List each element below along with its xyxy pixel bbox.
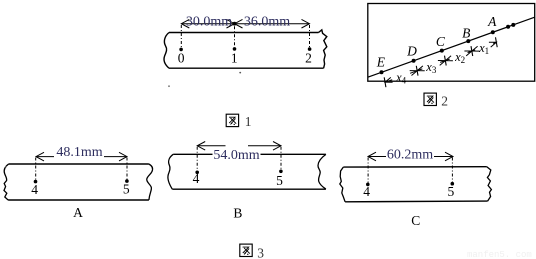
fig1 tape top edge — [169, 32, 319, 34]
tapeB top edge — [173, 153, 326, 155]
fig1 dim arrowhead at point2 — [302, 19, 310, 28]
fig2 dot D — [412, 59, 416, 63]
fig1 dashed extension line — [309, 25, 311, 47]
tapeA top edge — [9, 163, 149, 165]
svg-text:A: A — [73, 205, 83, 220]
tapeC dot 5 — [451, 182, 455, 186]
tapeC dashed line 5 — [451, 158, 453, 183]
fig2 dim arrow left x2 — [445, 59, 449, 61]
tapeC top edge — [343, 166, 487, 168]
speck left of fig1 tape lower — [168, 85, 170, 87]
tapeB bottom edge — [172, 188, 326, 190]
tapeC dot 4 — [366, 183, 370, 187]
svg-text:4: 4 — [193, 171, 200, 186]
svg-text:2: 2 — [305, 51, 312, 66]
fig2 dim arrow right x3 — [440, 61, 445, 63]
speck near tapeA top left — [5, 166, 7, 168]
tapeC right torn edge — [487, 167, 492, 201]
svg-text:A: A — [487, 14, 497, 29]
tapeA dashed line 5 — [126, 158, 128, 180]
fig2 dim arrow left x4 — [385, 80, 392, 83]
tapeA dim line left stub — [36, 156, 54, 158]
tapeC dim line left stub — [368, 156, 386, 158]
tapeA dashed line 4 — [35, 158, 37, 181]
fig1 tape bottom edge — [169, 67, 324, 69]
tapeB left torn edge — [168, 154, 173, 189]
fig2 dot C — [440, 49, 444, 53]
fig1 dot 2 — [308, 47, 312, 51]
tapeA dim arrowheads — [36, 152, 44, 161]
tapeB right torn edge — [318, 154, 326, 189]
tapeC dim line right stub — [434, 156, 453, 158]
tapeA left torn edge — [4, 164, 9, 200]
fig2 dimension tick — [445, 56, 447, 66]
fig1 dot 0 — [179, 48, 183, 52]
svg-text:48.1mm: 48.1mm — [56, 145, 102, 160]
svg-text:1: 1 — [231, 51, 238, 66]
tapeA dot 4 — [34, 180, 38, 184]
fig2 dim arrow right x2 — [468, 51, 472, 53]
svg-text:x4: x4 — [395, 71, 407, 86]
tapeB dot 5 — [279, 170, 283, 174]
svg-text:x1: x1 — [478, 41, 489, 56]
svg-text:30.0mm: 30.0mm — [186, 14, 232, 29]
fig2 dot E — [380, 70, 384, 74]
tapeA dim line right stub — [104, 156, 127, 158]
tapeB dim line left — [197, 145, 225, 147]
fig3 caption figure-3 — [240, 244, 252, 256]
fig2 caption figure-2 — [424, 93, 436, 105]
fig2 diagonal tape line — [368, 17, 535, 77]
tapeB dim line right — [248, 145, 281, 147]
fig2 dot extra — [511, 23, 515, 27]
fig2 dimension tick — [471, 46, 473, 56]
svg-text:E: E — [376, 54, 386, 69]
tapeC dim arrowheads — [368, 152, 376, 161]
tapeB label 54.0mm background — [213, 149, 261, 160]
svg-text:2: 2 — [441, 94, 448, 109]
fig2 dimension tick — [416, 66, 418, 76]
speck below fig1 tape — [239, 72, 241, 74]
tapeB dashed line 5 — [280, 147, 282, 170]
tapeA right torn edge — [147, 164, 153, 200]
svg-text:4: 4 — [363, 184, 370, 199]
fig1 caption figure-1 — [226, 114, 238, 126]
svg-text:5: 5 — [123, 181, 130, 196]
svg-text:manfen5. com: manfen5. com — [467, 250, 532, 259]
fig2 dot A — [491, 30, 495, 34]
svg-text:B: B — [462, 25, 470, 40]
svg-text:60.2mm: 60.2mm — [387, 147, 433, 162]
fig1 dim arrowhead at point0 — [181, 19, 189, 28]
fig1 tape right torn edge — [319, 30, 327, 68]
fig1 dimension line 0 to 2 — [181, 23, 309, 25]
tapeB dot 4 — [195, 171, 199, 175]
svg-text:C: C — [411, 213, 420, 228]
fig2 dim arrow left x1 — [472, 50, 475, 51]
tapeB dashed line 4 — [196, 147, 198, 171]
fig1 dot 1 — [233, 47, 237, 51]
tapeC left torn edge — [340, 167, 345, 202]
svg-text:B: B — [233, 206, 242, 221]
svg-text:D: D — [406, 44, 417, 59]
fig1 dashed extension line — [180, 25, 182, 47]
tapeC bottom edge — [345, 200, 488, 203]
svg-text:x2: x2 — [454, 50, 465, 65]
fig2 dim arrow right x4 — [410, 71, 417, 74]
svg-text:5: 5 — [276, 173, 283, 188]
svg-text:5: 5 — [448, 184, 455, 199]
svg-text:0: 0 — [178, 51, 185, 66]
svg-text:x3: x3 — [425, 60, 437, 75]
fig1 dashed extension line — [234, 26, 236, 47]
svg-text:C: C — [436, 34, 446, 49]
fig2 dim arrow right x1 — [493, 42, 496, 43]
fig2 dimension tick — [384, 77, 386, 87]
svg-text:3: 3 — [257, 246, 264, 259]
tapeC dashed line 4 — [367, 158, 369, 183]
fig1 tape left torn edge — [164, 33, 169, 69]
fig2 dot B — [466, 39, 470, 43]
tapeB dim arrowheads — [197, 142, 205, 151]
tapeA dot 5 — [125, 179, 129, 183]
fig2 dimension tick — [496, 37, 498, 47]
fig2 dot extra — [506, 25, 510, 29]
svg-text:54.0mm: 54.0mm — [213, 148, 259, 163]
svg-text:36.0mm: 36.0mm — [244, 14, 290, 29]
svg-text:4: 4 — [31, 182, 38, 197]
tapeA bottom edge — [8, 199, 149, 201]
fig2 frame box — [368, 4, 535, 82]
svg-text:1: 1 — [245, 114, 252, 129]
fig1 dim arrowheads at point1 — [227, 19, 235, 28]
fig2 dim arrow left x3 — [417, 69, 422, 71]
